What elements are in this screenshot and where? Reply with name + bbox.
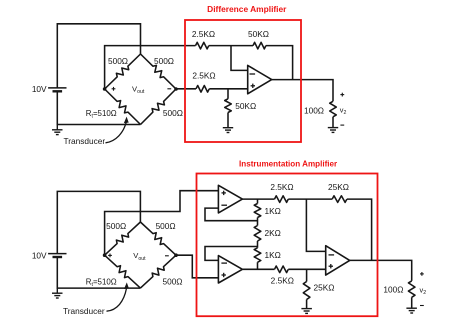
svg-text:Transducer: Transducer	[63, 136, 105, 146]
svg-text:2KΩ: 2KΩ	[265, 228, 281, 238]
svg-text:2.5KΩ: 2.5KΩ	[271, 276, 294, 286]
svg-text:10V: 10V	[32, 250, 47, 260]
svg-text:Rt=510Ω: Rt=510Ω	[86, 278, 117, 288]
svg-text:500Ω: 500Ω	[162, 277, 182, 287]
svg-text:500Ω: 500Ω	[163, 108, 183, 118]
svg-text:25KΩ: 25KΩ	[328, 182, 349, 192]
svg-text:10V: 10V	[32, 84, 47, 94]
svg-text:100Ω: 100Ω	[304, 106, 324, 116]
svg-text:500Ω: 500Ω	[108, 56, 128, 66]
svg-text:1KΩ: 1KΩ	[265, 250, 281, 260]
svg-text:Transducer: Transducer	[63, 306, 105, 316]
svg-text:Rt=510Ω: Rt=510Ω	[86, 109, 117, 119]
svg-text:2.5KΩ: 2.5KΩ	[192, 29, 215, 39]
svg-text:500Ω: 500Ω	[106, 221, 126, 231]
svg-text:Instrumentation Amplifier: Instrumentation Amplifier	[239, 160, 338, 169]
svg-text:2.5KΩ: 2.5KΩ	[270, 182, 293, 192]
svg-text:2.5KΩ: 2.5KΩ	[192, 70, 215, 80]
svg-text:50KΩ: 50KΩ	[248, 29, 269, 39]
svg-text:25KΩ: 25KΩ	[314, 283, 335, 293]
svg-text:1KΩ: 1KΩ	[265, 206, 281, 216]
svg-text:50KΩ: 50KΩ	[235, 101, 256, 111]
svg-text:100Ω: 100Ω	[383, 285, 403, 295]
svg-text:Difference Amplifier: Difference Amplifier	[207, 4, 287, 14]
svg-text:500Ω: 500Ω	[154, 56, 174, 66]
svg-text:500Ω: 500Ω	[156, 221, 176, 231]
